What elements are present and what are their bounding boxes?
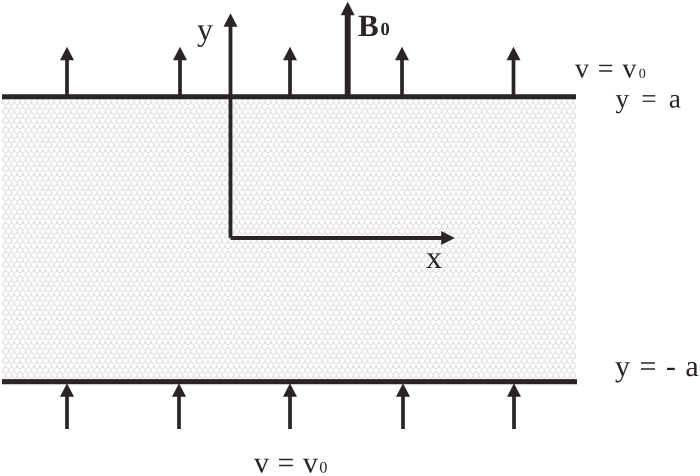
svg-text:v = v0: v = v0 [575,54,646,85]
B0 arrow (thick) [341,2,355,97]
bottom velocity arrow 5 [507,383,521,429]
bottom velocity arrow 2 [172,383,186,429]
svg-text:y: y [197,11,213,47]
top velocity arrow 4 [395,47,409,96]
svg-text:y = - a: y = - a [615,350,700,383]
bottom arrows (v field below lower plate) [60,383,521,429]
y axis [224,13,238,238]
bottom plate y = -a [2,379,577,384]
svg-text:y = a: y = a [616,84,684,114]
top velocity arrow 1 [60,47,74,96]
top arrows (v field above upper plate) [60,47,521,96]
svg-text:x: x [426,239,442,275]
top velocity arrow 2 [173,47,187,96]
top velocity arrow 5 [507,47,521,96]
bottom velocity arrow 1 [60,383,74,429]
bottom velocity arrow 3 [283,383,297,429]
top velocity arrow 3 [283,47,297,96]
top plate y = a [2,94,576,99]
fluid slab (textured region between plates) [2,97,576,379]
bottom velocity arrow 4 [396,383,410,429]
x axis [231,231,455,245]
svg-text:v = v0: v = v0 [254,447,327,476]
